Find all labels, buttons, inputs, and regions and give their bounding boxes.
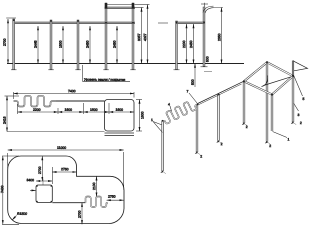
svg-text:2200: 2200 [182,40,186,48]
svg-text:5: 5 [302,97,304,101]
svg-text:2700: 2700 [38,166,42,174]
svg-text:2: 2 [200,155,202,159]
svg-text:500: 500 [191,79,195,85]
svg-text:2750: 2750 [61,167,69,171]
svg-text:2445: 2445 [34,40,38,48]
svg-text:2: 2 [246,125,248,129]
svg-text:1: 1 [287,138,289,142]
svg-text:4027: 4027 [143,33,147,41]
svg-text:1600: 1600 [64,108,72,112]
svg-text:2416: 2416 [3,116,7,124]
svg-text:2: 2 [221,142,223,146]
svg-text:2350: 2350 [217,33,221,41]
svg-text:7400: 7400 [0,185,4,193]
svg-text:R1500: R1500 [17,212,27,216]
svg-text:2750: 2750 [108,195,116,199]
svg-text:Уровень земли / покрытия: Уровень земли / покрытия [84,78,125,82]
svg-text:2: 2 [300,121,302,125]
svg-text:1: 1 [151,118,153,122]
svg-text:7: 7 [186,90,188,94]
svg-text:3: 3 [297,113,299,117]
svg-text:2450: 2450 [113,40,117,48]
svg-text:2: 2 [269,144,271,148]
svg-text:2100: 2100 [92,182,96,190]
svg-text:3057: 3057 [137,33,141,41]
svg-text:500: 500 [205,56,209,62]
svg-text:7400: 7400 [68,89,76,93]
svg-text:1600: 1600 [90,108,98,112]
svg-text:1600: 1600 [140,111,144,119]
svg-text:2450: 2450 [86,40,90,48]
svg-text:2200: 2200 [33,108,41,112]
svg-text:2700: 2700 [78,210,82,218]
svg-text:1600: 1600 [115,108,123,112]
svg-text:1500: 1500 [59,40,63,48]
svg-text:3400: 3400 [26,178,34,182]
svg-text:4: 4 [168,103,170,107]
svg-text:2450: 2450 [189,40,193,48]
svg-text:11000: 11000 [57,146,66,150]
svg-text:2700: 2700 [3,38,7,46]
